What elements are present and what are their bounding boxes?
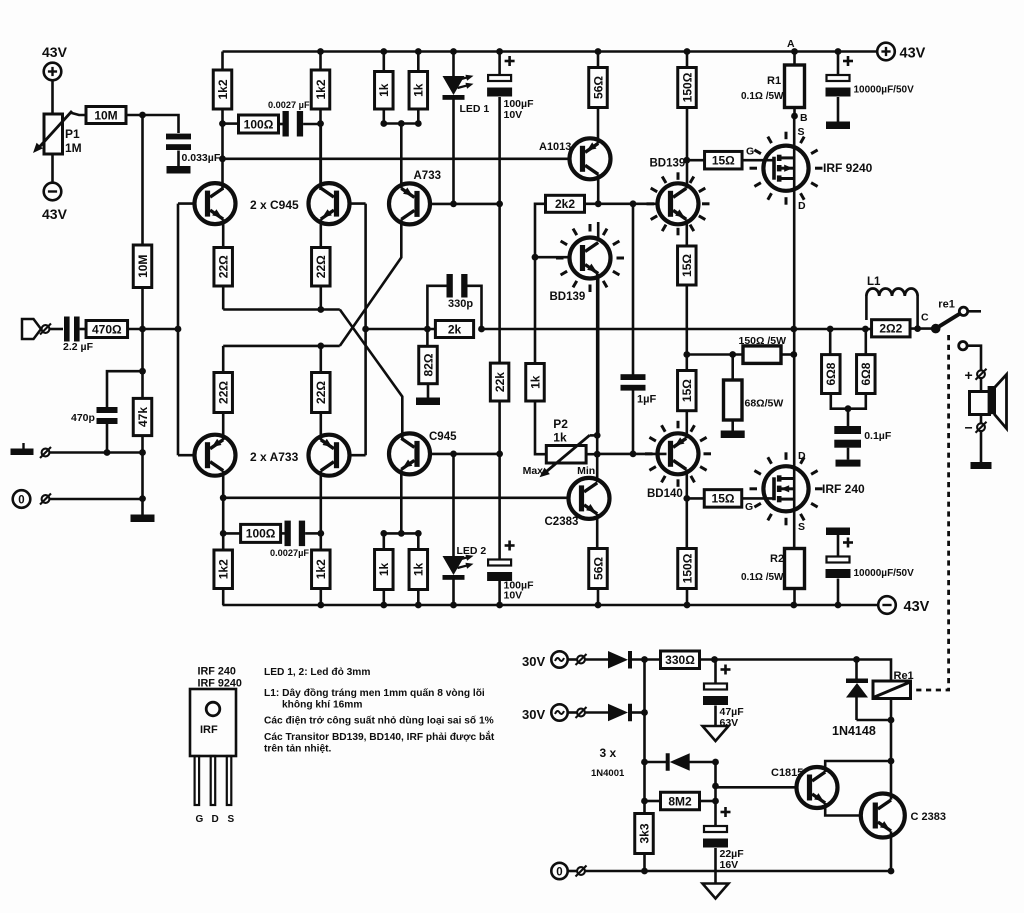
junction: [496, 451, 503, 458]
resistor 1k2 (bottom #1): [214, 550, 233, 589]
wire: [586, 453, 597, 456]
junction: [684, 48, 691, 55]
wire: [498, 401, 501, 454]
junction: [641, 868, 648, 875]
junction: [641, 656, 648, 663]
capacitor 10000uF/50V (bottom): [826, 528, 915, 580]
transistor Q4 A733: [309, 435, 350, 476]
junction: [845, 405, 852, 412]
junction: [595, 200, 602, 207]
svg-text:1k2: 1k2: [217, 559, 231, 579]
svg-text:R2: R2: [770, 553, 784, 565]
resistor 56R (bottom): [589, 549, 608, 589]
wire: [686, 589, 689, 606]
wire: [279, 123, 283, 126]
label 3x 1N4001: [591, 746, 625, 779]
wire: [498, 52, 501, 76]
junction: [139, 326, 146, 333]
wire: [106, 424, 109, 453]
wire 0V line: [585, 870, 891, 873]
wire: [452, 454, 455, 556]
wire: [221, 109, 224, 190]
junction: [790, 602, 797, 609]
wire: [731, 355, 734, 381]
wire: [223, 122, 239, 125]
wire BD139 emitter down: [597, 274, 600, 436]
junction: [220, 494, 227, 501]
resistor 22R (#4): [312, 373, 331, 413]
wire: [687, 497, 705, 500]
junction: [853, 656, 860, 663]
wire: [585, 711, 608, 714]
svg-text:82Ω: 82Ω: [421, 353, 435, 376]
wire: [825, 803, 861, 816]
wire: [141, 329, 144, 398]
resistor 1k (bottom #1): [375, 550, 394, 590]
svg-text:10M: 10M: [94, 108, 117, 122]
junction: [478, 326, 485, 333]
heatsink BD139 upper: [677, 228, 680, 236]
wire: [382, 533, 385, 549]
wire: [597, 222, 600, 238]
svg-text:1k: 1k: [377, 563, 391, 577]
capacitor 22uF/16V: [703, 807, 744, 871]
svg-text:330p: 330p: [448, 298, 473, 310]
svg-text:2k2: 2k2: [555, 197, 575, 211]
junction: [888, 717, 895, 724]
svg-text:1M: 1M: [65, 141, 82, 155]
resistor 2k2: [546, 195, 585, 212]
wire: [319, 471, 322, 550]
svg-text:trên tản nhiệt.: trên tản nhiệt.: [264, 744, 332, 755]
wire: [741, 159, 774, 162]
wire: [417, 533, 420, 549]
wire: [70, 113, 86, 116]
wire: [916, 296, 919, 329]
svg-text:43V: 43V: [904, 599, 930, 615]
wire: [319, 109, 322, 190]
resistor 6R8 (#1): [822, 355, 841, 394]
svg-text:LED 1, 2: Led đỏ 3mm: LED 1, 2: Led đỏ 3mm: [264, 667, 370, 678]
svg-text:2 x A733: 2 x A733: [250, 450, 299, 464]
svg-text:10000µF/50V: 10000µF/50V: [854, 568, 915, 579]
svg-text:1N4001: 1N4001: [591, 768, 625, 779]
svg-text:150Ω: 150Ω: [680, 72, 694, 102]
capacitor 100uF/10V (bottom): [487, 541, 534, 602]
junction: [641, 759, 648, 766]
wire: [685, 355, 688, 371]
wire: [716, 786, 797, 789]
wire wiper: [590, 434, 598, 437]
wire: [350, 454, 366, 457]
wire: [847, 409, 850, 426]
node B: [791, 112, 808, 124]
junction: [827, 326, 834, 333]
svg-text:0.033µF: 0.033µF: [182, 152, 221, 164]
wire: [980, 378, 983, 390]
diode D3 1N4001: [670, 753, 690, 771]
junction: [317, 602, 324, 609]
terminal 0 (input): [13, 490, 51, 508]
wire: [596, 274, 599, 483]
svg-text:100Ω: 100Ω: [244, 117, 274, 131]
junction: [398, 530, 405, 537]
svg-text:P2: P2: [553, 417, 568, 431]
svg-text:15Ω: 15Ω: [680, 254, 694, 277]
junction: [595, 602, 602, 609]
svg-text:LED 2: LED 2: [457, 545, 487, 557]
transistor C1815: [771, 767, 838, 808]
wire: [632, 204, 635, 377]
resistor R2 0.1R/5W: [741, 549, 805, 589]
svg-text:3k3: 3k3: [637, 823, 651, 843]
svg-text:100Ω: 100Ω: [246, 527, 276, 541]
svg-text:Max: Max: [523, 465, 544, 477]
wire: [585, 203, 657, 206]
wire: [51, 154, 54, 183]
junction: [139, 112, 146, 119]
wire: [596, 514, 599, 549]
resistor 100R (bottom): [241, 524, 281, 542]
wire 1k bus bottom: [384, 532, 419, 535]
junction: [496, 48, 503, 55]
svg-text:470p: 470p: [71, 412, 95, 424]
ground: [167, 166, 191, 174]
wire: [855, 698, 858, 721]
svg-text:S: S: [228, 814, 235, 825]
heatsink BD139 lower: [589, 285, 592, 293]
svg-text:1µF: 1µF: [637, 394, 656, 406]
transistor Q3 A733: [195, 435, 299, 476]
resistor 8M2: [661, 792, 700, 810]
svg-text:B: B: [800, 112, 808, 124]
svg-text:22Ω: 22Ω: [314, 381, 328, 404]
wire main line: [482, 328, 872, 331]
junction: [532, 254, 539, 261]
transistor A733 driver: [389, 170, 441, 224]
transistor C945 driver: [389, 431, 457, 474]
wire: [731, 420, 734, 431]
wire: [319, 124, 322, 189]
svg-text:47k: 47k: [136, 407, 150, 427]
junction: [317, 48, 324, 55]
resistor 1k2 (top #1): [213, 70, 232, 109]
diode D1 1N4001: [608, 651, 628, 669]
heatsink BD140: [677, 479, 680, 487]
wire: [177, 151, 180, 167]
wire: [417, 52, 420, 72]
svg-text:A: A: [787, 38, 795, 50]
svg-text:22Ω: 22Ω: [217, 381, 231, 404]
potentiometer P1 1M: [30, 111, 82, 156]
ground: [416, 398, 440, 406]
wire cross diagonal 1: [340, 310, 403, 441]
ground triangle: [703, 726, 729, 741]
wire: [178, 454, 195, 457]
svg-text:0: 0: [556, 866, 562, 878]
svg-text:C: C: [921, 312, 929, 324]
wire: [143, 115, 179, 133]
heatsink IRF9240: [785, 197, 788, 205]
svg-text:Các Transitor BD139, BD140, IR: Các Transitor BD139, BD140, IRF phải đượ…: [264, 730, 495, 743]
mosfet IRF 9240: [763, 146, 872, 191]
wire: [855, 660, 858, 679]
wire: [221, 52, 224, 71]
svg-text:1k2: 1k2: [314, 79, 328, 99]
junction: [219, 155, 226, 162]
capacitor 0.0027uF (top): [268, 100, 310, 137]
wire: [452, 52, 455, 77]
wire: [568, 870, 577, 873]
resistor 3k3: [635, 814, 654, 854]
wire: [714, 706, 717, 727]
resistor 56R (top): [589, 68, 608, 108]
wire: [281, 532, 285, 535]
wire: [847, 448, 850, 460]
wire: [319, 52, 322, 71]
capacitor 47uF/63V: [703, 665, 744, 730]
svg-text:1k: 1k: [377, 83, 391, 97]
svg-text:22k: 22k: [493, 372, 507, 392]
capacitor 1uF: [621, 374, 657, 405]
junction: [317, 530, 324, 537]
svg-text:1k2: 1k2: [216, 79, 230, 99]
resistor 15R gate (top): [705, 151, 743, 169]
ground: [826, 122, 850, 130]
junction: [888, 868, 895, 875]
resistor 1k (bottom #2): [409, 550, 428, 590]
resistor 1k (top #2): [409, 72, 428, 110]
svg-text:0: 0: [18, 494, 24, 506]
svg-text:IRF 9240: IRF 9240: [823, 161, 873, 175]
wire +43V rail: [223, 50, 878, 53]
junction: [630, 200, 637, 207]
svg-text:Min: Min: [577, 465, 595, 477]
wire: [222, 589, 225, 606]
wire: [690, 761, 716, 764]
wire: [632, 388, 635, 454]
wire: [837, 97, 840, 122]
svg-text:15Ω: 15Ω: [712, 492, 735, 506]
svg-text:L1: Dây đồng tráng men 1mm quấ: L1: Dây đồng tráng men 1mm quấn 8 vòng l…: [264, 687, 485, 699]
ground: [971, 462, 992, 469]
svg-text:2Ω2: 2Ω2: [879, 322, 902, 336]
svg-text:3 x: 3 x: [600, 746, 617, 760]
junction: [712, 783, 719, 790]
transistor Q2 C945: [309, 183, 350, 224]
wire: [831, 394, 866, 409]
svg-text:A733: A733: [414, 170, 442, 182]
svg-text:0.1Ω /5W: 0.1Ω /5W: [741, 91, 784, 102]
wire: [222, 286, 225, 310]
wire: [340, 219, 402, 346]
resistor 68R/5W: [724, 380, 784, 420]
wire: [498, 581, 501, 606]
ground: [721, 431, 745, 439]
junction: [641, 798, 648, 805]
wire: [597, 589, 600, 606]
wire: [585, 658, 608, 661]
wire mosfet node: [793, 329, 796, 549]
svg-text:D: D: [798, 200, 806, 212]
junction: [139, 449, 146, 456]
junction: [683, 157, 690, 164]
svg-text:C945: C945: [429, 431, 457, 443]
svg-text:8M2: 8M2: [668, 794, 692, 808]
resistor 22R (#3): [214, 373, 233, 413]
ground: [131, 515, 155, 523]
wire: [714, 848, 717, 884]
wire: [50, 328, 64, 331]
svg-text:10V: 10V: [504, 109, 523, 121]
relay link dashed: [912, 335, 949, 690]
wire: [837, 535, 840, 557]
wire mosfet node: [793, 116, 796, 329]
svg-text:1k: 1k: [528, 375, 542, 389]
wire: [890, 761, 893, 800]
resistor 22k: [490, 363, 509, 401]
wire: [829, 329, 832, 355]
wire: [793, 52, 796, 66]
wire: [426, 329, 429, 346]
svg-text:L1: L1: [867, 276, 881, 288]
wire: [781, 353, 794, 356]
wire emitter bus B: [223, 345, 340, 348]
transistor BD139 (VAS): [550, 238, 611, 304]
wire: [222, 413, 225, 441]
wire A1013 base line: [223, 158, 571, 161]
wire: [632, 658, 661, 661]
junction: [862, 326, 869, 333]
power terminal +43V (right): [877, 43, 925, 62]
capacitor 470p: [71, 407, 118, 424]
svg-text:+: +: [965, 367, 973, 383]
junction: [415, 48, 422, 55]
junction: [790, 351, 797, 358]
svg-text:10M: 10M: [136, 255, 150, 278]
resistor 100R (top): [239, 115, 279, 133]
wire: [535, 204, 546, 364]
svg-text:1k: 1k: [412, 563, 426, 577]
resistor 47k: [133, 398, 152, 435]
resistor 15R gate (bottom): [704, 490, 742, 508]
junction: [641, 709, 648, 716]
wire: [685, 285, 688, 355]
wire: [643, 854, 646, 872]
svg-text:G: G: [746, 146, 754, 158]
jack +: [965, 367, 987, 383]
relay coil Re1: [873, 670, 914, 699]
resistor 150R (bottom): [678, 549, 697, 589]
wire: [498, 204, 501, 363]
junction: [317, 306, 324, 313]
wire: [568, 711, 577, 714]
svg-text:15Ω: 15Ω: [680, 379, 694, 402]
capacitor 0.1uF: [834, 426, 892, 448]
junction: [380, 602, 387, 609]
wire: [597, 174, 600, 204]
svg-text:30V: 30V: [522, 707, 545, 722]
power terminal -43V (left): [42, 183, 68, 222]
svg-text:16V: 16V: [720, 859, 739, 871]
junction: [594, 451, 601, 458]
svg-text:2k: 2k: [448, 322, 462, 336]
svg-text:43V: 43V: [42, 206, 68, 222]
wire terminal: [959, 342, 967, 350]
junction: [380, 120, 387, 127]
svg-text:150Ω: 150Ω: [680, 553, 694, 583]
svg-text:2 x C945: 2 x C945: [250, 198, 299, 212]
power terminal +43V (left): [42, 44, 68, 80]
wire: [468, 286, 482, 329]
resistor 470R input: [86, 321, 128, 338]
wire: [141, 436, 144, 516]
wire: [50, 451, 143, 454]
ground triangle: [703, 884, 729, 899]
wire: [382, 590, 385, 606]
wire: [498, 97, 501, 204]
wire: [430, 453, 500, 456]
junction: [790, 326, 797, 333]
wire: [107, 371, 143, 407]
capacitor 0.0027uF (bottom): [270, 521, 309, 558]
wire: [427, 384, 430, 398]
wire: [417, 590, 420, 606]
svg-text:43V: 43V: [900, 46, 926, 62]
wire: [452, 579, 455, 606]
resistor 6R8 (#2): [857, 355, 876, 394]
svg-text:−: −: [965, 420, 973, 436]
junction: [835, 602, 842, 609]
terminal 0 (psu): [551, 863, 586, 879]
junction: [914, 325, 921, 332]
wire: [857, 719, 892, 722]
wire 1k bus: [384, 122, 419, 125]
svg-text:0.0027µF: 0.0027µF: [270, 548, 309, 558]
svg-text:D: D: [212, 814, 219, 825]
svg-text:6Ω8: 6Ω8: [859, 362, 873, 385]
junction: [450, 48, 457, 55]
junction: [595, 48, 602, 55]
wire: [645, 761, 667, 764]
wire: [400, 469, 403, 533]
wire -43V rail: [223, 604, 878, 607]
resistor 22R (#1): [214, 248, 233, 287]
junction: [712, 759, 719, 766]
wire: [837, 52, 840, 76]
svg-text:không khí 16mm: không khí 16mm: [282, 700, 362, 711]
svg-text:2.2 µF: 2.2 µF: [63, 341, 94, 353]
wire: [685, 498, 688, 548]
svg-text:43V: 43V: [42, 44, 68, 60]
wire: [222, 471, 225, 550]
junction: [139, 368, 146, 375]
junction: [729, 351, 736, 358]
wire: [141, 288, 144, 330]
IRF package pinout: [190, 666, 242, 826]
wire: [50, 498, 143, 501]
resistor 150R (top): [678, 68, 697, 108]
junction: [415, 530, 422, 537]
wire: [178, 202, 195, 205]
wire: [417, 109, 420, 124]
wire: [319, 413, 322, 441]
LED 2: [443, 545, 487, 580]
wire: [890, 831, 893, 871]
wire: [700, 800, 716, 803]
capacitor 10000uF/50V (top): [826, 56, 915, 97]
wire: [128, 328, 179, 331]
